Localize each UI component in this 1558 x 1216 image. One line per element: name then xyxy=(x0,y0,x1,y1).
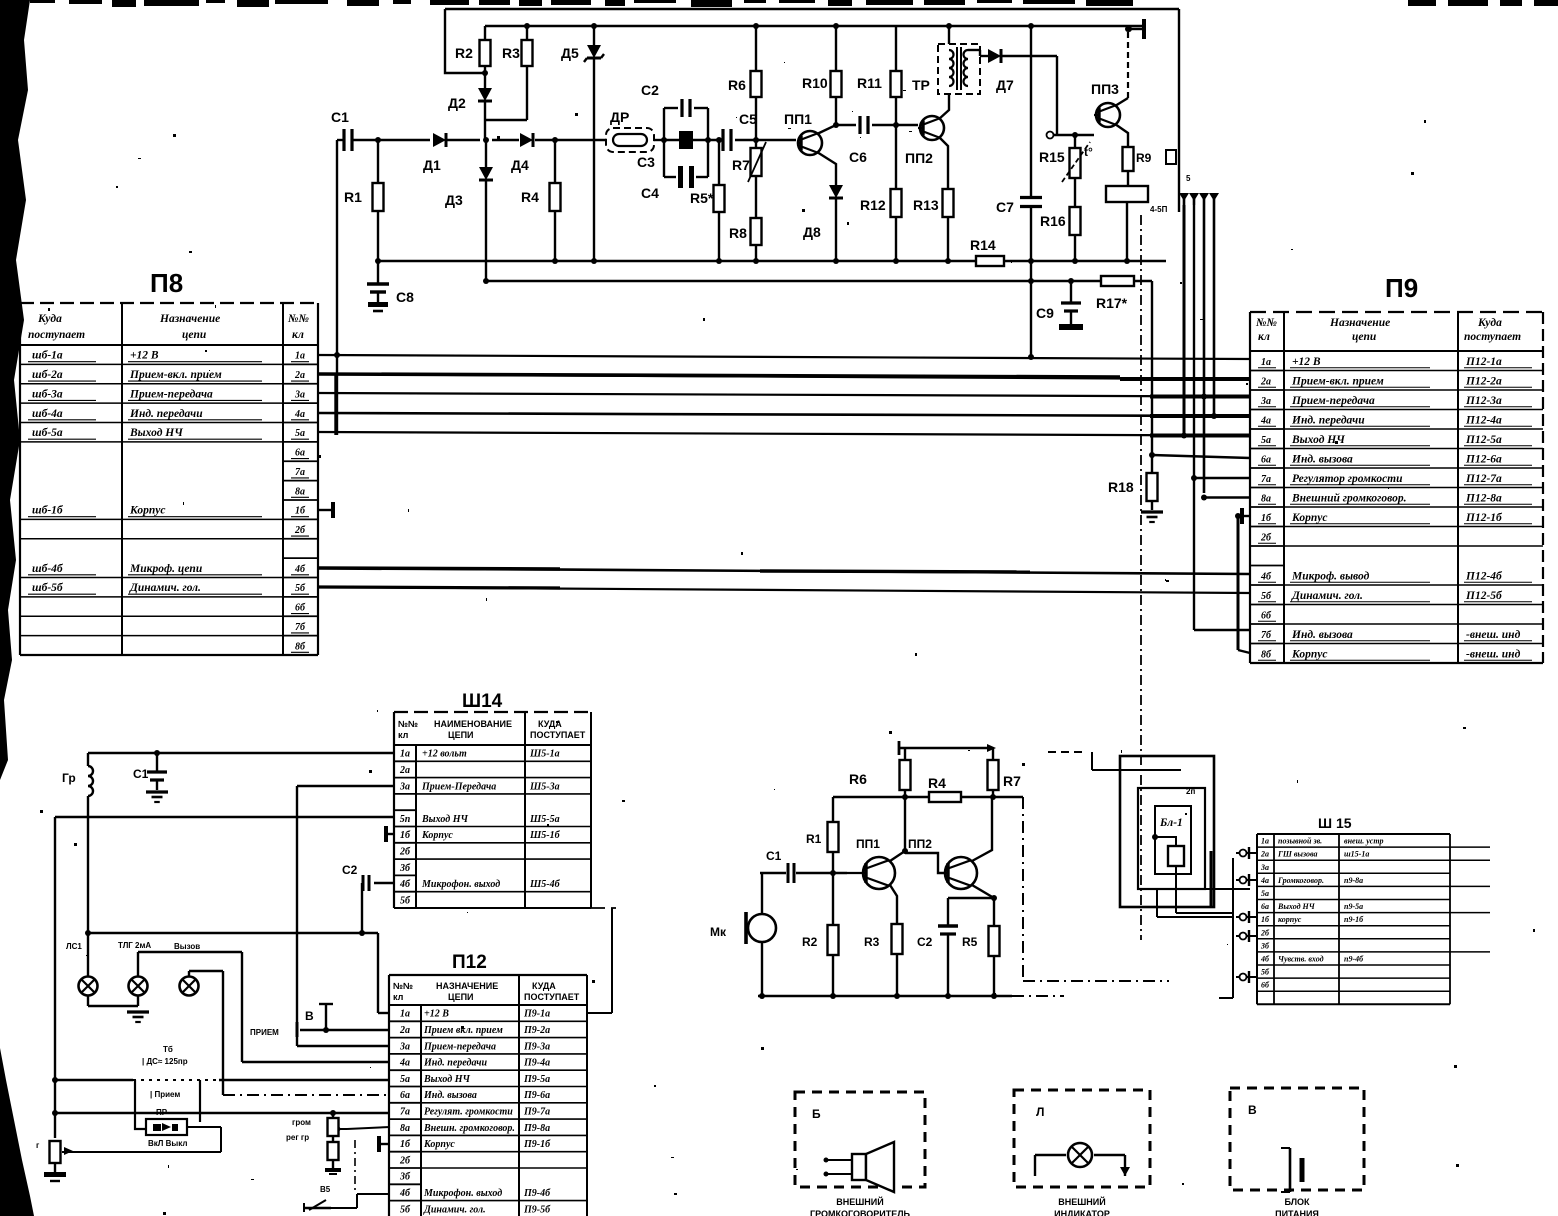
wire interstage xyxy=(905,853,945,873)
svg-text:ПР: ПР xyxy=(156,1108,168,1117)
svg-text:Ш5-1а: Ш5-1а xyxy=(529,749,560,760)
svg-text:Внешний громкоговор.: Внешний громкоговор. xyxy=(1291,491,1406,504)
wire shield dash line xyxy=(1140,215,1142,940)
svg-text:-внеш. инд: -внеш. инд xyxy=(1466,629,1521,641)
wire bus +12V 1a xyxy=(318,352,1250,359)
svg-text:+12 В: +12 В xyxy=(424,1009,449,1020)
svg-text:1б: 1б xyxy=(400,1139,411,1150)
svg-text:П12-6а: П12-6а xyxy=(1465,453,1502,465)
svg-text:6а: 6а xyxy=(295,448,305,459)
svg-text:2а: 2а xyxy=(294,370,305,381)
block Bl-1 outer xyxy=(1120,756,1214,907)
transformer TR xyxy=(912,26,980,94)
resistor R12 xyxy=(860,125,902,261)
svg-text:5а: 5а xyxy=(1261,889,1269,898)
svg-text:внеш. устр: внеш. устр xyxy=(1344,837,1384,846)
wire PP2 collector xyxy=(939,94,949,119)
wire bus 4a xyxy=(318,413,1250,416)
svg-text:4а: 4а xyxy=(1260,415,1271,426)
wire drop to P9 7a 7b xyxy=(1191,205,1250,630)
svg-text:гром: гром xyxy=(292,1118,311,1127)
svg-text:4б: 4б xyxy=(294,564,306,575)
svg-text:Д8: Д8 xyxy=(803,224,821,240)
svg-text:Д3: Д3 xyxy=(445,192,463,208)
svg-text:Выход НЧ: Выход НЧ xyxy=(129,427,183,439)
svg-text:5п: 5п xyxy=(400,814,411,825)
resistor R4 mic xyxy=(928,775,961,802)
svg-text:8б: 8б xyxy=(295,641,306,652)
svg-text:шб-4б: шб-4б xyxy=(32,563,64,575)
earphone jack Tlf xyxy=(1106,186,1148,261)
battery symbol xyxy=(1281,1148,1302,1192)
svg-text:+12 В: +12 В xyxy=(1292,356,1321,368)
wire drop to P9 3a xyxy=(1201,205,1250,493)
svg-text:С6: С6 xyxy=(849,149,867,165)
svg-text:| ДС≈ 125пр: | ДС≈ 125пр xyxy=(142,1057,188,1066)
block battery box xyxy=(1230,1088,1364,1190)
svg-text:ГРОМКОГОВОРИТЕЛЬ: ГРОМКОГОВОРИТЕЛЬ xyxy=(810,1209,911,1216)
resistor R15 thermistor xyxy=(1039,135,1093,182)
wire lamp1 lamp2 ground xyxy=(88,996,149,1022)
svg-text:Вызов: Вызов xyxy=(174,942,200,951)
svg-text:R7: R7 xyxy=(1003,773,1021,789)
node connector Sh5 pins xyxy=(1150,150,1219,214)
svg-text:С2: С2 xyxy=(342,863,358,877)
svg-text:С8: С8 xyxy=(396,289,414,305)
svg-text:П12-8а: П12-8а xyxy=(1465,492,1502,504)
svg-text:R9: R9 xyxy=(1136,151,1152,165)
wire Sh14 3a to P12 3a xyxy=(297,786,394,1046)
svg-text:3а: 3а xyxy=(1260,396,1271,407)
svg-text:С7: С7 xyxy=(996,199,1014,215)
svg-text:П12-1а: П12-1а xyxy=(1465,356,1502,368)
svg-text:ПП3: ПП3 xyxy=(1091,81,1119,97)
block Bl-1 inner2 xyxy=(1155,787,1195,874)
transistor PP2 mic xyxy=(908,837,977,889)
svg-text:шб-2а: шб-2а xyxy=(32,369,63,381)
svg-text:R8: R8 xyxy=(729,225,747,241)
svg-text:Динамич. гол.: Динамич. гол. xyxy=(1291,590,1363,602)
diode D5 zener xyxy=(561,26,604,261)
transistor PP1 xyxy=(784,111,822,155)
svg-text:ЦЕПИ: ЦЕПИ xyxy=(448,730,474,740)
svg-text:Инд. передачи: Инд. передачи xyxy=(129,408,203,420)
microphone Mk xyxy=(710,873,776,996)
wire bus thick segments xyxy=(318,374,1250,588)
capacitor C2 mic coupling xyxy=(342,863,394,933)
wire Sh14 to P12 link right side xyxy=(587,908,616,1013)
svg-text:R2: R2 xyxy=(455,45,473,61)
svg-text:цепи: цепи xyxy=(182,329,207,341)
svg-text:В: В xyxy=(1248,1103,1257,1117)
svg-text:4б: 4б xyxy=(1260,954,1270,963)
svg-text:С1: С1 xyxy=(133,767,149,781)
svg-text:Микроф. вывод: Микроф. вывод xyxy=(1291,570,1370,582)
svg-text:5а: 5а xyxy=(1261,435,1271,446)
svg-text:Л: Л xyxy=(1036,1105,1044,1119)
wire P9 corpus bracket xyxy=(1235,513,1250,653)
svg-text:П12: П12 xyxy=(452,952,487,973)
resistor R18 xyxy=(1108,455,1163,522)
svg-text:П9-8а: П9-8а xyxy=(523,1123,550,1134)
wire +12V feed to bus xyxy=(1028,261,1034,360)
block external speaker box xyxy=(795,1092,925,1187)
svg-text:Б: Б xyxy=(812,1107,821,1121)
indicator lamp symbol xyxy=(1035,1143,1130,1176)
wire mic node line xyxy=(833,794,1023,800)
svg-text:В: В xyxy=(305,1009,314,1023)
node Sh15 pin symbols xyxy=(1236,847,1257,983)
resistor R2 xyxy=(455,26,491,73)
svg-text:кл: кл xyxy=(393,992,404,1002)
svg-text:Микроф. цепи: Микроф. цепи xyxy=(129,563,203,575)
svg-text:Ш 15: Ш 15 xyxy=(1318,815,1352,831)
svg-text:Чувств. вход: Чувств. вход xyxy=(1278,954,1324,963)
svg-text:ТР: ТР xyxy=(912,77,930,93)
svg-text:Д1: Д1 xyxy=(423,157,441,173)
svg-text:Динамич. гол.: Динамич. гол. xyxy=(129,582,201,594)
svg-text:шб-5б: шб-5б xyxy=(32,582,64,594)
svg-text:Регулятор громкости: Регулятор громкости xyxy=(1292,473,1403,485)
transistor PP3 xyxy=(1091,81,1120,127)
capacitor C3 trimmer xyxy=(637,131,693,170)
svg-text:П9-7а: П9-7а xyxy=(523,1106,550,1117)
svg-text:4а: 4а xyxy=(399,1058,410,1069)
svg-text:ЛС1: ЛС1 xyxy=(66,942,82,951)
svg-text:С1: С1 xyxy=(331,109,349,125)
diode D4 xyxy=(511,133,533,173)
svg-text:п9-8а: п9-8а xyxy=(1344,876,1363,885)
svg-text:П9: П9 xyxy=(1385,273,1418,303)
svg-text:4б: 4б xyxy=(399,879,411,890)
svg-text:Назначение: Назначение xyxy=(1329,317,1390,329)
wire to block input xyxy=(1048,752,1181,770)
svg-text:2а: 2а xyxy=(399,1025,410,1036)
resistor R6 xyxy=(728,26,762,140)
wire bus 4b mic xyxy=(318,568,1250,574)
svg-text:п9-5а: п9-5а xyxy=(1344,902,1363,911)
diode D8 xyxy=(803,185,843,261)
block external indicator box xyxy=(1014,1090,1150,1187)
capacitor C2 xyxy=(641,82,708,117)
svg-text:5б: 5б xyxy=(295,583,306,594)
svg-text:Д5: Д5 xyxy=(561,45,579,61)
svg-text:ГШ вызова: ГШ вызова xyxy=(1277,850,1318,859)
svg-text:R14: R14 xyxy=(970,237,996,253)
svg-text:2б: 2б xyxy=(294,525,306,536)
svg-text:шб-1б: шб-1б xyxy=(32,505,64,517)
capacitor C7 xyxy=(996,26,1042,261)
svg-text:Громкоговор.: Громкоговор. xyxy=(1277,876,1324,885)
node chassis P9 1b xyxy=(1242,508,1250,524)
handset box Tb xyxy=(135,1045,200,1129)
resistor R17 xyxy=(1096,276,1134,311)
svg-text:3а: 3а xyxy=(399,781,410,792)
wire ground rail 2 xyxy=(483,278,1152,284)
wire mic amp top rail xyxy=(899,741,996,755)
svg-text:Корпус: Корпус xyxy=(421,830,453,841)
svg-text:5б: 5б xyxy=(400,895,411,906)
wire drop to P9 4a xyxy=(1211,205,1250,419)
svg-text:П12-4б: П12-4б xyxy=(1465,570,1503,582)
wire P12 7a wire xyxy=(55,1112,390,1114)
wire top supply rail upper xyxy=(445,9,1179,212)
svg-text:ПОСТУПАЕТ: ПОСТУПАЕТ xyxy=(524,992,580,1002)
svg-text:1а: 1а xyxy=(1261,837,1269,846)
svg-text:кл: кл xyxy=(292,329,304,341)
svg-text:1б: 1б xyxy=(1261,915,1270,924)
node connector P8 table xyxy=(20,268,318,655)
svg-text:Инд. вызова: Инд. вызова xyxy=(1291,629,1353,641)
svg-text:Корпус: Корпус xyxy=(423,1139,455,1150)
svg-text:Выход НЧ: Выход НЧ xyxy=(421,814,468,825)
wire R12 tap xyxy=(893,122,899,128)
wire shield dash bottom left xyxy=(354,1140,356,1190)
svg-text:С1: С1 xyxy=(766,849,782,863)
resistor R10 xyxy=(802,26,842,97)
resistor R3 mic xyxy=(864,924,903,996)
wire bus 2a xyxy=(318,374,1250,379)
svg-text:шб-5а: шб-5а xyxy=(32,427,63,439)
wire drop to P9 5a xyxy=(1181,205,1250,439)
svg-text:П9-5а: П9-5а xyxy=(523,1074,550,1085)
svg-text:R4: R4 xyxy=(928,775,946,791)
resistor R7 trimmer xyxy=(732,140,766,218)
wire mic base line xyxy=(796,870,847,876)
svg-text:R3: R3 xyxy=(864,935,880,949)
wire Sh14 5p wire xyxy=(55,816,394,818)
svg-text:7б: 7б xyxy=(295,622,306,633)
wire top supply rail xyxy=(485,23,1144,29)
capacitor C1 xyxy=(331,109,352,151)
wire +12V branch lamps xyxy=(85,930,378,936)
svg-text:Инд. передачи: Инд. передачи xyxy=(1291,414,1365,426)
svg-text:1б: 1б xyxy=(400,830,411,841)
svg-text:3б: 3б xyxy=(1260,941,1270,950)
potentiometer volume R19 xyxy=(286,1110,390,1174)
svg-text:Корпус: Корпус xyxy=(129,505,165,517)
wire coil to lamps xyxy=(87,796,89,976)
svg-text:ВкЛ Выкл: ВкЛ Выкл xyxy=(148,1139,187,1148)
svg-text:Выход НЧ: Выход НЧ xyxy=(1277,902,1316,911)
resistor R9 xyxy=(1123,147,1152,186)
svg-text:t°: t° xyxy=(1084,145,1093,159)
capacitor C4 xyxy=(641,166,708,201)
wire PP1 mic emitter xyxy=(890,885,897,924)
wire bottom rail xyxy=(375,258,1166,264)
svg-text:Прием-вкл. прием: Прием-вкл. прием xyxy=(1291,375,1384,387)
svg-text:П9-4а: П9-4а xyxy=(523,1058,550,1069)
svg-text:П9-5б: П9-5б xyxy=(523,1204,551,1215)
svg-text:Выход НЧ: Выход НЧ xyxy=(1291,434,1345,446)
svg-text:КУДА: КУДА xyxy=(538,719,562,729)
svg-text:Инд. передачи: Инд. передачи xyxy=(423,1058,488,1069)
svg-text:R4: R4 xyxy=(521,189,539,205)
wire PP3 collector xyxy=(1115,26,1131,106)
svg-text:7б: 7б xyxy=(1261,630,1272,641)
svg-text:7а: 7а xyxy=(400,1106,410,1117)
svg-text:ИНДИКАТОР: ИНДИКАТОР xyxy=(1054,1209,1110,1216)
svg-text:5а: 5а xyxy=(400,1074,410,1085)
transistor PP1 mic xyxy=(847,837,895,889)
svg-text:5б: 5б xyxy=(1261,591,1272,602)
node connector P12 table xyxy=(389,952,587,1216)
svg-text:1б: 1б xyxy=(295,506,306,517)
svg-text:П12-3а: П12-3а xyxy=(1465,395,1502,407)
svg-text:ПОСТУПАЕТ: ПОСТУПАЕТ xyxy=(530,730,586,740)
svg-text:6а: 6а xyxy=(1261,902,1269,911)
node PP3 base xyxy=(1047,132,1095,139)
svg-text:5б: 5б xyxy=(400,1204,411,1215)
resistor R16 xyxy=(1040,178,1081,261)
resistor R8 xyxy=(729,218,762,261)
node chassis Sh14 1b xyxy=(386,826,394,842)
svg-text:Тб: Тб xyxy=(163,1045,173,1054)
svg-text:шб-1а: шб-1а xyxy=(32,350,63,362)
resistor R5 xyxy=(690,140,725,261)
resistor R2 mic xyxy=(802,873,839,996)
svg-text:8б: 8б xyxy=(1261,649,1272,660)
resistor R6 mic xyxy=(849,748,911,797)
svg-text:кл: кл xyxy=(1258,331,1270,343)
svg-text:В5: В5 xyxy=(320,1185,331,1194)
svg-text:ВНЕШНИЙ: ВНЕШНИЙ xyxy=(836,1196,883,1207)
svg-text:Инд. вызова: Инд. вызова xyxy=(423,1090,477,1101)
resistor ground bottom left xyxy=(36,1141,73,1181)
capacitor C1 mic xyxy=(760,849,794,883)
svg-text:№№: №№ xyxy=(398,719,418,729)
inductor Gr coil xyxy=(62,753,93,796)
svg-text:Гр: Гр xyxy=(62,771,76,785)
svg-text:Ш14: Ш14 xyxy=(462,691,503,712)
inductor DR choke xyxy=(606,109,654,152)
wire PP2 mic emitter xyxy=(948,885,997,926)
svg-text:№№: №№ xyxy=(393,981,413,991)
svg-text:R18: R18 xyxy=(1108,479,1134,495)
wire drop to P9 8a xyxy=(1201,495,1250,501)
svg-text:Выход НЧ: Выход НЧ xyxy=(423,1074,470,1085)
svg-text:рег гр: рег гр xyxy=(286,1133,309,1142)
svg-text:Микрофон. выход: Микрофон. выход xyxy=(423,1188,502,1199)
svg-text:6б: 6б xyxy=(1261,981,1270,990)
svg-text:-внеш. инд: -внеш. инд xyxy=(1466,648,1521,660)
svg-text:| Прием: | Прием xyxy=(150,1090,180,1099)
wire +12 top wire to Sh14 1a xyxy=(88,750,394,756)
svg-text:3а: 3а xyxy=(1260,863,1269,872)
svg-text:№№: №№ xyxy=(287,313,310,325)
wire PP2 emitter xyxy=(939,137,948,189)
svg-text:8а: 8а xyxy=(1261,493,1271,504)
svg-text:R10: R10 xyxy=(802,75,828,91)
node chassis P8 1b xyxy=(318,502,333,518)
svg-text:6а: 6а xyxy=(400,1090,410,1101)
svg-text:6б: 6б xyxy=(1261,610,1272,621)
wire bus 5a xyxy=(318,432,1250,436)
diode D7 xyxy=(980,49,1057,135)
switch V5 mic xyxy=(304,1185,389,1212)
diode D2 xyxy=(448,73,492,140)
svg-text:R1: R1 xyxy=(344,189,362,205)
svg-text:Динамич. гол.: Динамич. гол. xyxy=(423,1204,486,1215)
wire R2 branch xyxy=(445,9,488,76)
wire main line left xyxy=(337,137,796,143)
node terminal top right xyxy=(1126,19,1144,39)
wire mic ground rail xyxy=(758,993,1064,999)
svg-text:Куда: Куда xyxy=(1477,317,1502,329)
svg-text:5а: 5а xyxy=(295,428,305,439)
resistor R1 xyxy=(344,140,384,261)
svg-text:Корпус: Корпус xyxy=(1291,648,1327,660)
svg-text:7а: 7а xyxy=(295,467,305,478)
svg-text:С2: С2 xyxy=(917,935,933,949)
node connector Sh15 table xyxy=(1257,815,1490,1004)
wire PP2 mic collector xyxy=(972,797,992,861)
wire bus 5b xyxy=(318,587,1250,593)
svg-text:Ш5-1б: Ш5-1б xyxy=(529,830,561,841)
svg-text:ПП1: ПП1 xyxy=(784,111,812,127)
svg-text:R13: R13 xyxy=(913,197,939,213)
svg-text:R16: R16 xyxy=(1040,213,1066,229)
svg-text:R1: R1 xyxy=(806,832,822,846)
wire lamp2 to P12 4a xyxy=(138,952,390,1062)
svg-text:Внешн. громкоговор.: Внешн. громкоговор. xyxy=(423,1123,515,1134)
svg-text:2б: 2б xyxy=(399,846,411,857)
svg-text:Д2: Д2 xyxy=(448,95,466,111)
svg-text:R15: R15 xyxy=(1039,149,1065,165)
svg-text:7а: 7а xyxy=(1261,474,1271,485)
svg-text:П9-3а: П9-3а xyxy=(523,1041,550,1052)
svg-text:Бл-1: Бл-1 xyxy=(1159,817,1183,829)
resistor R1 mic xyxy=(806,797,839,873)
svg-text:Прием-передача: Прием-передача xyxy=(423,1041,496,1052)
svg-text:П9-4б: П9-4б xyxy=(523,1188,551,1199)
wire C1 input drop to P8 xyxy=(336,140,337,435)
diode D1 xyxy=(423,133,446,173)
wire lamp3 to P12 6a xyxy=(189,971,390,1095)
svg-text:С3: С3 xyxy=(637,154,655,170)
svg-text:ПИТАНИЯ: ПИТАНИЯ xyxy=(1275,1209,1319,1216)
resistor R14 xyxy=(970,237,1004,266)
svg-text:Прием-вкл. прием: Прием-вкл. прием xyxy=(129,369,222,381)
svg-text:ПРИЕМ: ПРИЕМ xyxy=(250,1028,279,1037)
svg-text:шб-4а: шб-4а xyxy=(32,408,63,420)
svg-text:Мк: Мк xyxy=(710,925,727,939)
wire PP1 emitter xyxy=(817,152,836,185)
svg-text:Назначение: Назначение xyxy=(159,313,220,325)
svg-text:Д4: Д4 xyxy=(511,157,529,173)
wire left vertical xyxy=(52,817,58,1138)
wire C2 block xyxy=(661,108,711,177)
svg-text:1а: 1а xyxy=(1261,357,1271,368)
svg-text:Д7: Д7 xyxy=(996,77,1014,93)
capacitor C8 electrolytic xyxy=(367,261,414,311)
svg-text:ПП2: ПП2 xyxy=(908,837,932,851)
svg-text:корпус: корпус xyxy=(1278,915,1302,924)
svg-text:ш15-1а: ш15-1а xyxy=(1344,850,1369,859)
svg-text:п9-1б: п9-1б xyxy=(1344,915,1364,924)
svg-text:Прием-передача: Прием-передача xyxy=(129,388,213,400)
svg-text:Куда: Куда xyxy=(37,313,62,325)
svg-text:БЛОК: БЛОК xyxy=(1284,1197,1310,1207)
svg-text:4б: 4б xyxy=(1260,571,1272,582)
svg-text:1а: 1а xyxy=(400,1009,410,1020)
node connector Sh14 table xyxy=(394,691,591,908)
svg-text:R5*: R5* xyxy=(690,190,714,206)
svg-text:цепи: цепи xyxy=(1352,331,1377,343)
wire mic output xyxy=(1023,797,1169,981)
svg-text:С2: С2 xyxy=(641,82,659,98)
svg-text:6б: 6б xyxy=(295,603,306,614)
